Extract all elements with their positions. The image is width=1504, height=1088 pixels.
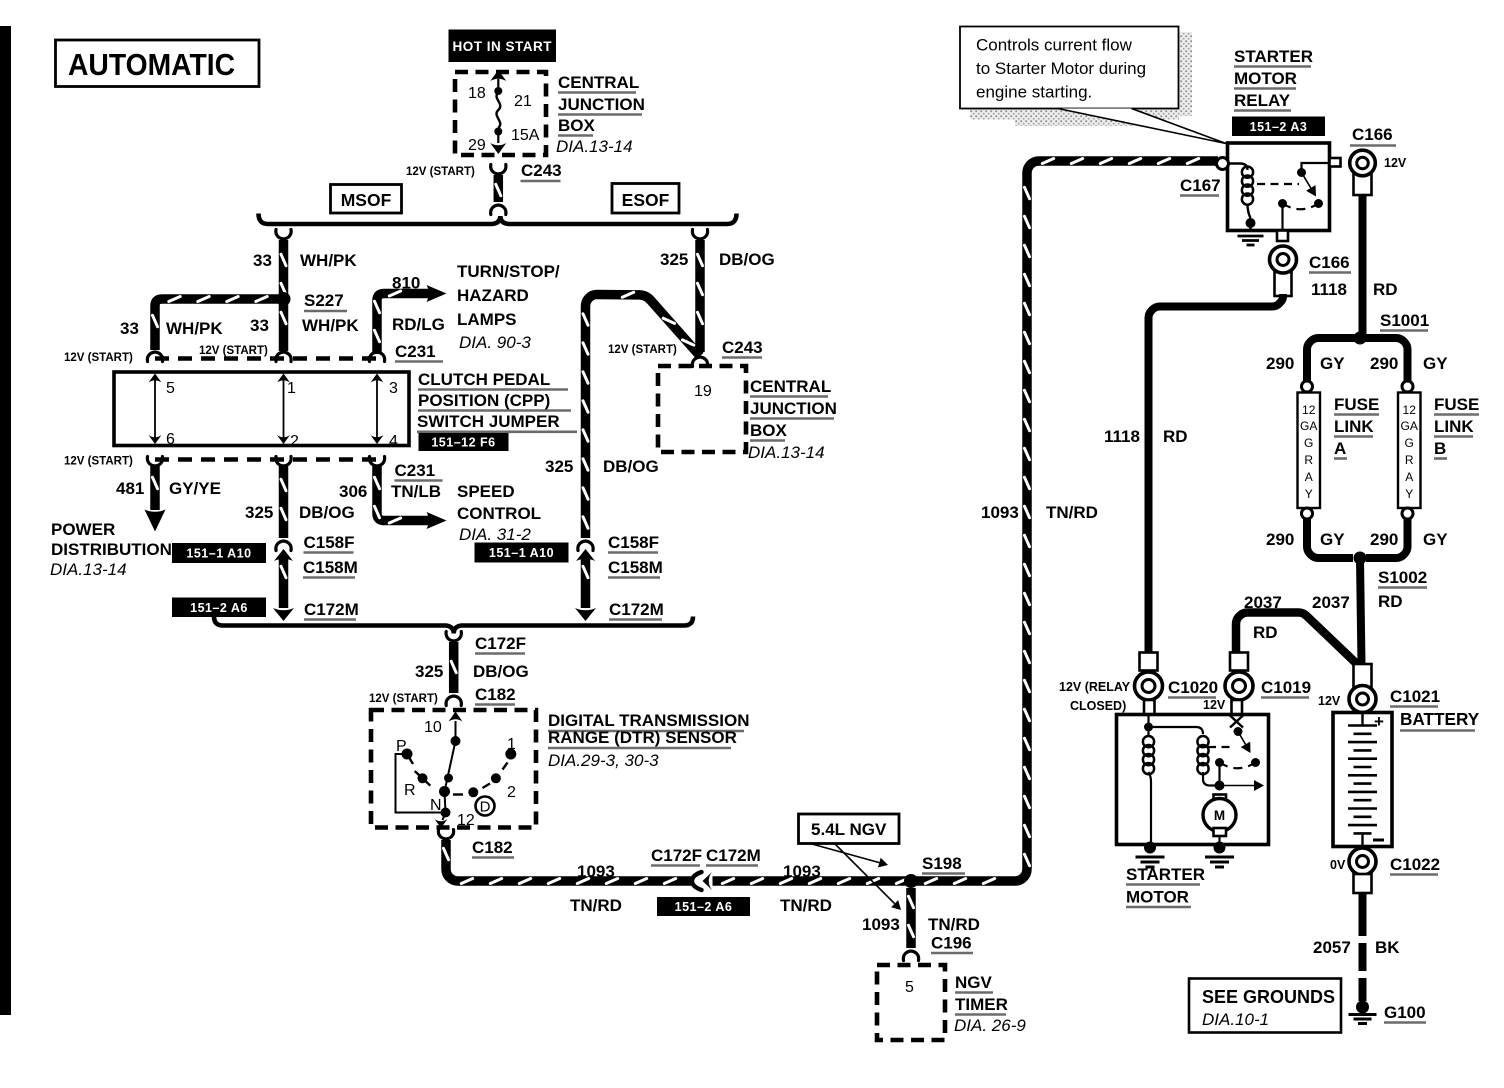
svg-text:BOX: BOX [750, 421, 788, 440]
connector break C158F/C158M (left) [276, 541, 291, 551]
svg-text:Controls current flow: Controls current flow [976, 36, 1133, 55]
svg-text:2: 2 [290, 433, 299, 450]
svg-text:SWITCH JUMPER: SWITCH JUMPER [417, 412, 560, 431]
svg-text:481: 481 [116, 479, 144, 498]
connector C1022 ring [1349, 848, 1376, 875]
digital transmission range DTR sensor box (dashed) [371, 710, 536, 828]
dashed jumper harness line above CPP switch [155, 356, 377, 361]
svg-text:BATTERY: BATTERY [1400, 709, 1480, 729]
svg-text:306: 306 [339, 482, 367, 501]
svg-text:MSOF: MSOF [341, 190, 392, 210]
wire 1093 TN/RD S198 down to C196 [906, 888, 916, 948]
svg-text:12V (START): 12V (START) [369, 693, 438, 705]
relay actuation dashed link [1257, 183, 1299, 185]
wire 33 WH/PK branch MSOF (brace to S227 to CPP pin 1) [276, 230, 291, 240]
svg-text:RD/LG: RD/LG [392, 315, 445, 334]
grid ref tag 151-2 A3 [1232, 117, 1325, 137]
svg-text:5: 5 [166, 380, 175, 397]
svg-text:BK: BK [1375, 938, 1400, 957]
svg-text:POSITION (CPP): POSITION (CPP) [418, 391, 550, 410]
svg-text:JUNCTION: JUNCTION [750, 399, 837, 418]
svg-text:CLUTCH PEDAL: CLUTCH PEDAL [418, 370, 550, 389]
fuse link A body [1302, 381, 1313, 392]
wire 810 RD/LG to turn/stop/hazard lamps [377, 294, 429, 355]
note callout box: Controls current flow to Starter Motor during engine starting. [960, 27, 1179, 109]
svg-text:D: D [480, 799, 491, 816]
note callout shadow (halftone) [1179, 32, 1192, 116]
grid ref tag 151-12 F6 [419, 433, 509, 451]
svg-text:AUTOMATIC: AUTOMATIC [68, 47, 235, 82]
svg-text:DISTRIBUTION: DISTRIBUTION [51, 540, 172, 559]
svg-text:R: R [1405, 453, 1414, 467]
svg-text:4: 4 [389, 433, 398, 450]
svg-text:C243: C243 [521, 161, 562, 180]
svg-text:Y: Y [1405, 487, 1413, 501]
svg-text:WH/PK: WH/PK [302, 316, 359, 335]
svg-text:STARTER: STARTER [1234, 47, 1313, 66]
connector C1019 ring [1230, 653, 1248, 671]
svg-text:C158F: C158F [304, 533, 355, 552]
svg-text:DB/OG: DB/OG [603, 457, 659, 476]
svg-text:A: A [1405, 470, 1413, 484]
svg-text:1093: 1093 [862, 915, 900, 934]
starter solenoid pull-in coil [1144, 723, 1153, 732]
svg-text:DB/OG: DB/OG [473, 662, 529, 681]
starter ground left [1144, 842, 1156, 854]
battery box [1333, 713, 1392, 847]
svg-text:151–2 A6: 151–2 A6 [675, 900, 733, 914]
svg-text:CLOSED): CLOSED) [1070, 699, 1126, 713]
ESOF option box [612, 184, 679, 214]
connector break C158F/C158M (right) [578, 541, 593, 551]
svg-text:151–12 F6: 151–12 F6 [431, 436, 495, 450]
svg-text:to Starter Motor during: to Starter Motor during [976, 59, 1146, 78]
svg-text:CENTRAL: CENTRAL [750, 377, 831, 396]
svg-text:1093: 1093 [783, 862, 821, 881]
battery plates [1361, 714, 1363, 726]
svg-text:21: 21 [514, 93, 532, 110]
battery G1 with C1021 [1354, 664, 1372, 688]
svg-text:LINK: LINK [1434, 417, 1474, 436]
svg-text:RANGE (DTR) SENSOR: RANGE (DTR) SENSOR [548, 728, 737, 747]
svg-text:12: 12 [457, 812, 475, 829]
fuse 15A inside central junction box [497, 79, 499, 90]
wire C243 to splice brace [494, 175, 504, 202]
svg-text:1: 1 [287, 380, 296, 397]
svg-text:12V: 12V [1203, 698, 1226, 712]
relay output contact [1314, 199, 1323, 208]
svg-text:A: A [1305, 470, 1313, 484]
svg-text:S1001: S1001 [1380, 311, 1429, 330]
splice S1001 [1354, 332, 1367, 345]
svg-text:POWER: POWER [51, 520, 115, 539]
svg-text:325: 325 [415, 662, 443, 681]
callout pointer to starter motor relay [1058, 109, 1226, 144]
wire 306 TN/LB CPP pin 4 to speed control [377, 465, 429, 521]
svg-text:2037: 2037 [1244, 593, 1282, 612]
splice brace bus above C172F [214, 617, 693, 634]
svg-text:C172F: C172F [651, 846, 702, 865]
svg-text:0V: 0V [1330, 858, 1346, 872]
starter switch arm [1238, 732, 1246, 745]
svg-text:12V: 12V [1318, 694, 1341, 708]
svg-text:RD: RD [1163, 427, 1188, 446]
svg-text:Y: Y [1305, 487, 1313, 501]
svg-text:GY: GY [1320, 354, 1345, 373]
DTR P to low-side link [396, 754, 446, 813]
svg-text:12V (START): 12V (START) [64, 352, 133, 364]
svg-text:ESOF: ESOF [622, 190, 670, 210]
wire 1118 RD relay to C1020 [1149, 294, 1284, 652]
svg-text:TN/RD: TN/RD [1046, 503, 1098, 522]
svg-text:15A: 15A [511, 127, 540, 144]
svg-text:C158F: C158F [608, 533, 659, 552]
wire 481 GY/YE to power distribution [150, 465, 160, 510]
svg-text:2: 2 [507, 784, 516, 801]
svg-text:151–2 A3: 151–2 A3 [1250, 120, 1308, 134]
svg-text:C1021: C1021 [1390, 687, 1440, 706]
wire 325 DB/OG from C243 jog to C158 break (right) [586, 295, 701, 539]
DTR position R contact [418, 773, 428, 783]
svg-text:C166: C166 [1352, 125, 1393, 144]
svg-text:A: A [1334, 439, 1346, 458]
svg-text:3: 3 [389, 380, 398, 397]
connector C1020 ring [1140, 653, 1158, 671]
svg-text:LAMPS: LAMPS [457, 310, 517, 329]
wire 325 DB/OG branch ESOF down to C243 [692, 230, 707, 240]
connector forks at CPP jumper dashed harness (C231) [147, 352, 162, 362]
svg-text:C182: C182 [475, 685, 516, 704]
ground G100 [1356, 1001, 1369, 1014]
page border bar (left edge) [0, 26, 11, 1015]
central junction box 1 (dashed) [455, 72, 546, 155]
svg-text:33: 33 [250, 316, 269, 335]
svg-text:290: 290 [1370, 530, 1398, 549]
splice brace bus under C243 [259, 214, 737, 225]
CPP jumper pin 1-2 wire [283, 378, 285, 440]
svg-text:S198: S198 [922, 854, 962, 873]
grid ref tag 151-2 A6 (bottom) [657, 897, 750, 916]
svg-text:325: 325 [660, 250, 688, 269]
svg-text:C158M: C158M [303, 558, 358, 577]
svg-text:151–2 A6: 151–2 A6 [190, 601, 248, 615]
wire 325 DB/OG C158M to C172M (right) [581, 556, 591, 608]
svg-text:290: 290 [1266, 530, 1294, 549]
connector C166 ring (relay output) [1275, 272, 1292, 296]
wire 2057 BK battery to ground G100 [1359, 893, 1367, 1001]
svg-text:151–1 A10: 151–1 A10 [186, 547, 251, 561]
relay output pin tab (bottom) [1277, 231, 1288, 242]
svg-text:+: + [1374, 712, 1384, 731]
svg-text:engine starting.: engine starting. [976, 83, 1092, 102]
svg-text:HOT IN START: HOT IN START [453, 39, 553, 54]
svg-text:G: G [1405, 436, 1414, 450]
svg-text:GY/YE: GY/YE [169, 479, 221, 498]
svg-text:2057: 2057 [1313, 938, 1351, 957]
svg-text:WH/PK: WH/PK [166, 319, 223, 338]
svg-text:BOX: BOX [558, 116, 596, 135]
svg-text:R: R [1304, 453, 1313, 467]
svg-text:12V (START): 12V (START) [64, 456, 133, 468]
DTR position D indicator [476, 797, 495, 816]
callout box 5.4L NGV [799, 814, 900, 844]
svg-text:6: 6 [166, 431, 175, 448]
svg-text:325: 325 [545, 457, 573, 476]
DTR arc contacts to positions 2 and 1 [468, 787, 478, 797]
svg-text:12V (START): 12V (START) [406, 166, 475, 178]
starter solenoid hold-in coil [1149, 727, 1204, 734]
svg-text:1: 1 [507, 736, 516, 753]
DTR pin 10 arrow [455, 721, 457, 741]
svg-text:19: 19 [694, 383, 712, 400]
svg-text:CONTROL: CONTROL [457, 504, 541, 523]
svg-text:DIA. 31-2: DIA. 31-2 [459, 525, 531, 544]
wire 33 WH/PK from S227 left and down to CPP pin 5 [155, 299, 284, 350]
svg-text:P: P [396, 738, 407, 755]
svg-text:TN/RD: TN/RD [570, 896, 622, 915]
svg-text:RD: RD [1373, 280, 1398, 299]
DTR selector contacts [451, 736, 461, 746]
title box AUTOMATIC [56, 40, 260, 87]
relay coil ground [1246, 218, 1256, 228]
svg-text:C167: C167 [1180, 176, 1221, 195]
connector break C172F C172M on bottom wire [694, 871, 713, 892]
svg-text:33: 33 [253, 251, 272, 270]
svg-text:151–1 A10: 151–1 A10 [489, 546, 554, 560]
starter engage arrow [1220, 785, 1255, 787]
grid ref tag 151-2 A6 (left) [172, 598, 266, 618]
svg-text:TIMER: TIMER [955, 995, 1008, 1014]
wire 290 GY fuse link feeds (top) [1307, 338, 1408, 382]
svg-text:C243: C243 [722, 338, 763, 357]
svg-text:C172M: C172M [609, 600, 664, 619]
wire 290 GY fuse link outputs to S1002 [1307, 518, 1353, 558]
svg-text:TN/RD: TN/RD [780, 896, 832, 915]
svg-text:1093: 1093 [577, 862, 615, 881]
splice S198 [904, 874, 918, 888]
svg-text:GA: GA [1401, 419, 1418, 433]
wire 2037 RD C1019 to battery junction [1236, 613, 1358, 666]
svg-text:C231: C231 [395, 461, 436, 480]
svg-text:C158M: C158M [608, 558, 663, 577]
svg-text:CENTRAL: CENTRAL [558, 73, 639, 92]
starter motor relay box U1 [1228, 143, 1330, 231]
svg-text:GY: GY [1320, 530, 1345, 549]
svg-text:C1019: C1019 [1261, 678, 1311, 697]
wire 1093 TN/RD from C182 along bottom to S198 and up to starter relay [446, 161, 1218, 881]
starter ground right [1214, 842, 1226, 854]
svg-text:RELAY: RELAY [1234, 91, 1291, 110]
svg-text:S1002: S1002 [1378, 568, 1427, 587]
svg-text:GY: GY [1423, 530, 1448, 549]
svg-text:SEE GROUNDS: SEE GROUNDS [1202, 987, 1335, 1007]
svg-text:12: 12 [1403, 403, 1417, 417]
CPP jumper pin 5-6 wire [154, 378, 156, 440]
relay coil [1228, 164, 1248, 171]
svg-text:DIA.13-14: DIA.13-14 [556, 137, 633, 156]
svg-text:DIA.29-3, 30-3: DIA.29-3, 30-3 [548, 751, 659, 770]
svg-text:C172M: C172M [706, 846, 761, 865]
note box SEE GROUNDS DIA.10-1 [1189, 979, 1341, 1033]
svg-text:DIA.10-1: DIA.10-1 [1202, 1010, 1269, 1029]
svg-text:C1020: C1020 [1168, 678, 1218, 697]
svg-text:2037: 2037 [1312, 593, 1350, 612]
wire 325 DB/OG C158M to C172M (left) [279, 556, 289, 608]
svg-text:NGV: NGV [955, 973, 993, 992]
svg-text:GA: GA [1300, 419, 1317, 433]
svg-text:SPEED: SPEED [457, 482, 515, 501]
svg-text:290: 290 [1370, 354, 1398, 373]
connector C182 (lower) label [438, 830, 453, 840]
svg-text:DIA.13-14: DIA.13-14 [748, 443, 825, 462]
svg-text:12V: 12V [1384, 156, 1407, 170]
svg-text:12V (RELAY: 12V (RELAY [1059, 680, 1131, 694]
svg-text:325: 325 [245, 503, 273, 522]
starter switch dashed links [1208, 746, 1233, 748]
svg-text:290: 290 [1266, 354, 1294, 373]
relay switch common contact [1297, 168, 1306, 177]
svg-text:10: 10 [424, 719, 442, 736]
wire 325 DB/OG from CPP pin 2 to C158 break [279, 465, 289, 538]
svg-text:C172M: C172M [304, 600, 359, 619]
grid ref tag 151-1 A10 (right) [475, 543, 569, 563]
svg-text:TN/RD: TN/RD [928, 915, 980, 934]
splice S1002 [1354, 552, 1367, 565]
wire RD C166 to S1001 [1359, 195, 1367, 334]
svg-text:33: 33 [120, 319, 139, 338]
svg-text:1118: 1118 [1104, 427, 1140, 446]
svg-text:S227: S227 [304, 291, 344, 310]
svg-text:B: B [1434, 439, 1446, 458]
svg-text:C172F: C172F [475, 634, 526, 653]
svg-text:GY: GY [1423, 354, 1448, 373]
svg-text:1093: 1093 [981, 503, 1019, 522]
svg-text:DIA.13-14: DIA.13-14 [50, 560, 127, 579]
svg-text:DIA. 26-9: DIA. 26-9 [954, 1016, 1026, 1035]
central junction box 2 (dashed) [658, 366, 746, 452]
grid ref tag 151-1 A10 (left) [172, 543, 266, 563]
svg-text:DB/OG: DB/OG [299, 503, 355, 522]
svg-text:HAZARD: HAZARD [457, 286, 529, 305]
svg-text:RD: RD [1253, 623, 1278, 642]
svg-text:5: 5 [905, 979, 914, 996]
svg-text:G: G [1304, 436, 1313, 450]
fuse link B body [1402, 381, 1413, 392]
relay switch arm [1302, 173, 1311, 188]
svg-text:M: M [1214, 808, 1225, 823]
svg-text:C1022: C1022 [1390, 855, 1440, 874]
svg-text:C166: C166 [1309, 253, 1350, 272]
svg-text:DB/OG: DB/OG [719, 250, 775, 269]
starter switch crossed contact [1230, 716, 1243, 728]
starter motor M [1214, 795, 1227, 803]
relay left pin circle [1217, 158, 1229, 170]
svg-text:R: R [404, 782, 416, 799]
splice S227 [277, 292, 291, 306]
callout arrow to 1093 wire below S198 [835, 844, 895, 904]
relay input pin tab (right) [1330, 158, 1341, 167]
wire 325 DB/OG C172F to C182 (DTR feed) [446, 632, 461, 642]
svg-text:JUNCTION: JUNCTION [558, 95, 645, 114]
svg-text:MOTOR: MOTOR [1234, 69, 1297, 88]
svg-text:MOTOR: MOTOR [1126, 888, 1189, 907]
CPP jumper pin 3-4 wire [376, 378, 378, 440]
svg-text:DIA. 90-3: DIA. 90-3 [459, 333, 531, 352]
svg-text:RD: RD [1378, 592, 1403, 611]
DTR position P contact [402, 749, 413, 760]
svg-text:TN/LB: TN/LB [391, 482, 441, 501]
svg-text:C182: C182 [472, 838, 513, 857]
power tag HOT IN START [449, 30, 557, 63]
svg-text:5.4L NGV: 5.4L NGV [811, 820, 887, 839]
svg-text:N: N [430, 797, 442, 814]
svg-text:C231: C231 [395, 342, 436, 361]
svg-text:STARTER: STARTER [1126, 865, 1205, 884]
svg-text:12V (START): 12V (START) [608, 344, 677, 356]
svg-text:FUSE: FUSE [1434, 395, 1479, 414]
NGV timer box (dashed) [877, 965, 945, 1040]
svg-text:12: 12 [1302, 403, 1316, 417]
dashed jumper harness line below CPP switch [155, 457, 377, 462]
callout arrow to S198 wire [812, 844, 879, 863]
svg-text:12V (START): 12V (START) [199, 345, 268, 357]
svg-text:LINK: LINK [1334, 417, 1374, 436]
svg-text:G100: G100 [1384, 1003, 1426, 1022]
svg-text:18: 18 [468, 85, 486, 102]
svg-text:TURN/STOP/: TURN/STOP/ [457, 262, 560, 281]
svg-text:FUSE: FUSE [1334, 395, 1379, 414]
MSOF option box [331, 185, 402, 214]
clutch pedal position CPP switch jumper box [114, 372, 409, 446]
svg-text:29: 29 [468, 137, 486, 154]
svg-text:WH/PK: WH/PK [300, 251, 357, 270]
svg-text:1118: 1118 [1311, 280, 1347, 299]
wire RD S1002 to battery C1021 [1360, 560, 1362, 664]
starter motor box [1144, 700, 1155, 715]
svg-text:810: 810 [392, 274, 420, 293]
svg-text:C196: C196 [931, 934, 972, 953]
